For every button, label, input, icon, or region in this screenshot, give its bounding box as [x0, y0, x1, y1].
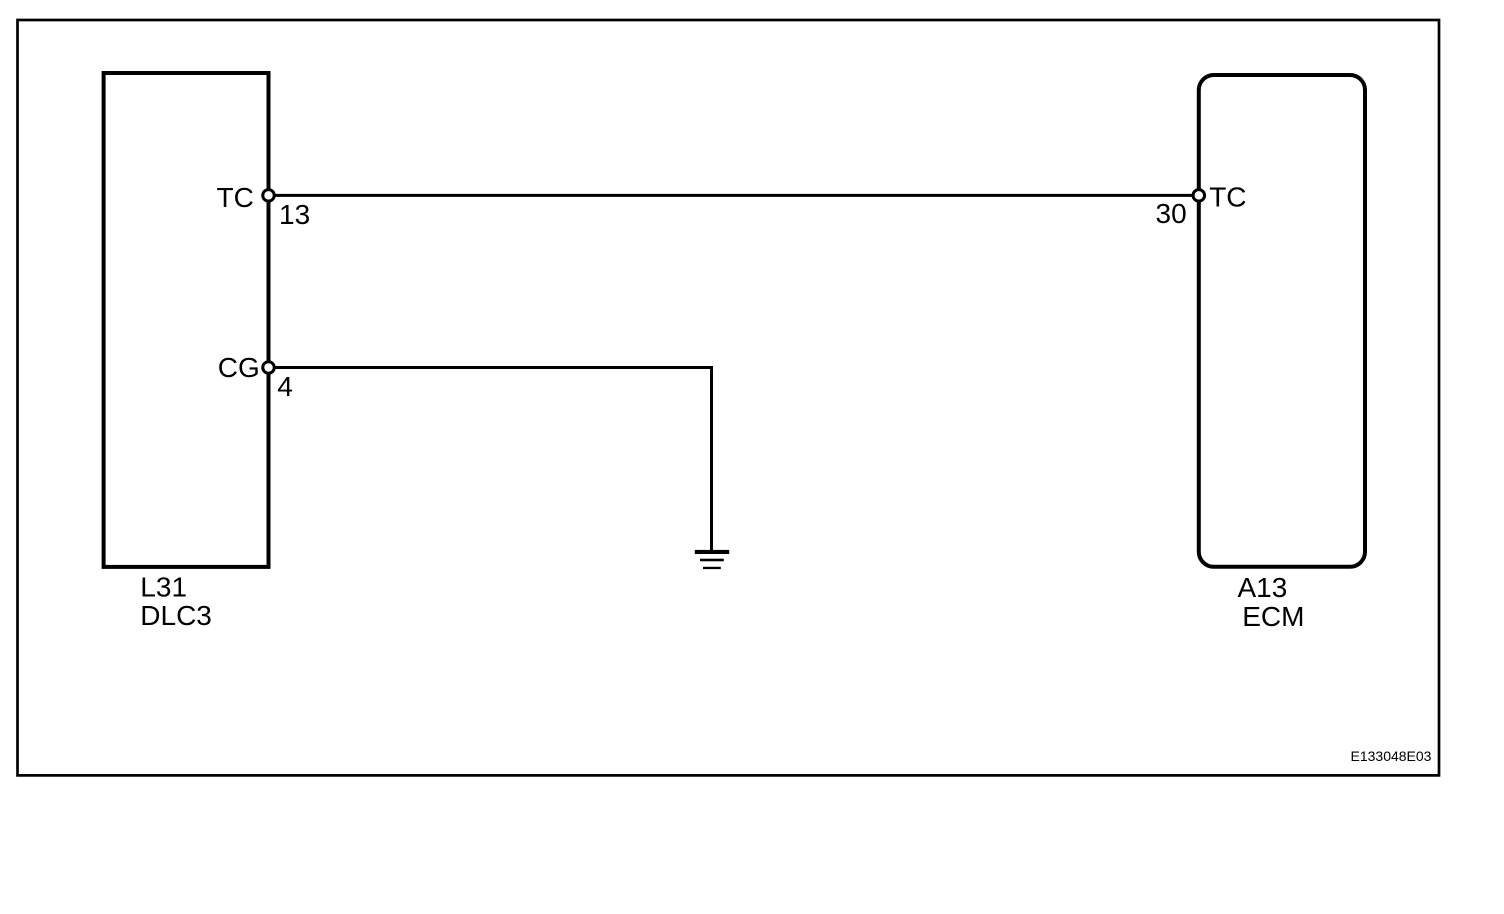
- svg-text:A13: A13: [1238, 572, 1288, 603]
- connector A13 ECM: [1199, 75, 1365, 567]
- label L31 DLC3: [140, 572, 212, 632]
- svg-text:E133048E03: E133048E03: [1351, 748, 1432, 764]
- pin TC of ECM: [1193, 190, 1205, 202]
- svg-text:L31: L31: [140, 572, 187, 603]
- label A13 ECM: [1238, 572, 1305, 632]
- svg-text:ECM: ECM: [1242, 601, 1304, 632]
- svg-text:30: 30: [1156, 198, 1187, 229]
- pin TC of DLC3: [263, 190, 275, 202]
- ground: [695, 550, 729, 569]
- svg-text:13: 13: [279, 199, 310, 230]
- connector L31 DLC3: [104, 73, 269, 567]
- pin CG of DLC3: [263, 362, 275, 374]
- wire CG: DLC3 pin 4 to ground: [269, 368, 712, 551]
- svg-text:CG: CG: [218, 352, 260, 383]
- svg-text:4: 4: [277, 371, 293, 402]
- svg-text:TC: TC: [1209, 182, 1246, 213]
- wire TC: DLC3 pin 13 to ECM pin 30: [269, 194, 1199, 197]
- svg-text:TC: TC: [217, 182, 254, 213]
- svg-text:DLC3: DLC3: [140, 600, 212, 631]
